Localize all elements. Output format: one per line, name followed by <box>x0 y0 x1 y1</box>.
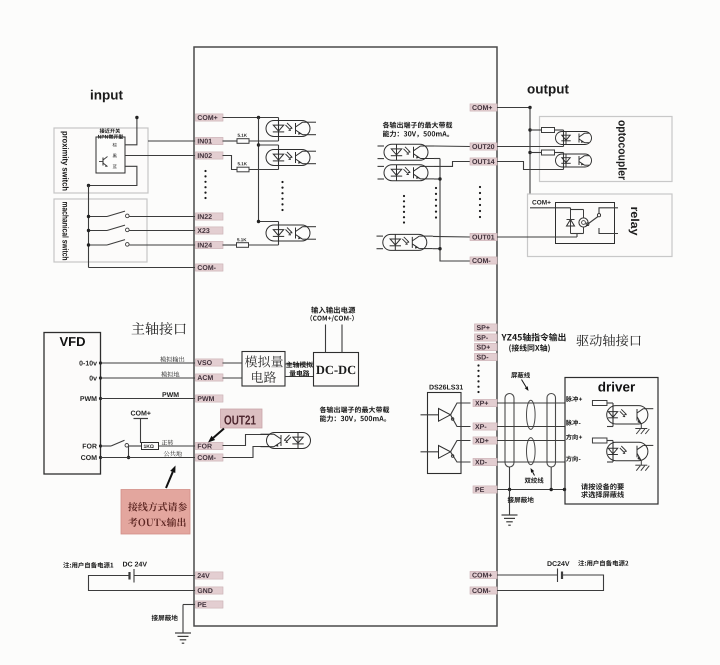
junction switch-COM <box>127 456 130 459</box>
junction bus U5 <box>438 177 441 180</box>
proximity sensor transistor symbol <box>99 161 103 163</box>
relay label <box>629 207 640 235</box>
proximity pin label 蓝 <box>113 164 117 168</box>
terminal IN24 (input) <box>196 241 224 248</box>
ellipsis YZ terminals <box>477 364 479 366</box>
resistor R3 5.1K <box>237 243 249 248</box>
wire PE earth drop <box>509 490 511 516</box>
relay contact blade <box>589 217 599 224</box>
wire COM+ output external <box>497 107 530 109</box>
terminal FOR (spindle) <box>196 442 224 449</box>
wire proximity pin1 to COM+ rail <box>125 118 137 145</box>
wire R1 to opto U1 <box>249 140 279 142</box>
terminal OUT20 (output) <box>470 143 497 150</box>
stub U5 LED left <box>378 165 385 167</box>
note user power 1 <box>63 562 113 568</box>
terminal COM- (IO power) <box>470 587 497 594</box>
driver label <box>598 382 635 392</box>
wire analog to DCDC lower <box>285 376 314 378</box>
relay COM+ label <box>532 200 550 205</box>
junction S2 <box>87 229 90 232</box>
earth ground (power) <box>175 632 191 634</box>
label 脉冲- <box>566 420 578 426</box>
wire VSO to analog box <box>223 362 243 364</box>
note max load text (spindle) <box>320 406 390 413</box>
twisted pair ellipse XP <box>527 400 536 429</box>
relay contact bottom <box>599 228 618 234</box>
VFD pin 0-10v <box>79 361 97 366</box>
buffer A1 out+ to XP+ <box>451 403 471 415</box>
resistor R2 5.1K <box>237 167 249 172</box>
optocoupler U9 (OUT21 demo, mirrored) <box>261 433 311 449</box>
wire switch common bus <box>88 186 90 268</box>
junction bus ch2 <box>257 143 260 146</box>
buffer A2 out- to XD- <box>451 452 471 462</box>
earth ground (drive) <box>502 514 518 516</box>
wire 0-10v to VSO <box>101 362 196 364</box>
proximity sensor inner box <box>96 137 125 173</box>
wire ACM to analog box <box>223 377 243 379</box>
junction bus corner ch3 <box>257 220 260 223</box>
wire battery loop left <box>89 576 196 591</box>
analog circuit text <box>245 356 283 368</box>
terminal VSO (spindle) <box>196 359 224 366</box>
terminal PE (power) <box>196 601 224 608</box>
spindle interface title 主轴接口 <box>132 322 186 335</box>
wire proximity pin3 to common <box>89 166 137 185</box>
label (COM+/COM-) <box>310 315 353 322</box>
relay coil <box>579 218 588 227</box>
battery B1 <box>133 569 135 583</box>
ellipsis output optos A <box>403 195 405 197</box>
DC-DC text <box>316 366 355 374</box>
wire R8 to opto <box>607 440 613 442</box>
wire battery2 loop <box>497 575 604 591</box>
resistor R8 <box>592 438 607 443</box>
wire DCDC feed left <box>325 325 327 353</box>
switch FOR blade <box>101 445 112 447</box>
callout OUT21 box <box>221 409 263 428</box>
wire COM- to demo opto <box>223 447 271 458</box>
wire proximity pin2 to IN02 <box>125 155 195 157</box>
switch S2 to X23 <box>89 230 108 232</box>
terminal XP- (drive) <box>473 423 497 430</box>
junction S1 <box>87 215 90 218</box>
label COM+ pullup <box>131 411 151 416</box>
optocoupler U11 (driver) <box>607 442 654 460</box>
wire switch to R6 <box>129 445 142 447</box>
wire 24V to battery <box>134 575 195 577</box>
wire branch2 <box>530 152 542 154</box>
label 接线同X轴 <box>509 344 550 352</box>
flyback diode D1 <box>570 210 572 234</box>
wire R2 to opto U2 <box>249 169 279 171</box>
optocoupler U5 (OUT14) <box>384 165 434 181</box>
chassis ground drv1 <box>640 424 642 429</box>
wire COM+ rail drop <box>140 419 142 444</box>
label DC 24V (left) <box>123 562 147 567</box>
LED feed ch1 <box>278 118 280 142</box>
wire OUT01 to relay <box>497 236 556 238</box>
DC-DC box <box>314 353 359 387</box>
terminal SP- (YZ cmd) <box>475 334 498 341</box>
optocoupler U1 <box>266 121 316 137</box>
relay K1 body <box>556 203 615 244</box>
analog circuit box 模拟量电路 <box>242 352 285 387</box>
wire output common bus <box>440 159 470 262</box>
cable shield capsule left <box>505 394 514 468</box>
LED feed ch2 <box>278 145 280 170</box>
input section title <box>91 90 123 103</box>
wire bus to ch2 LED <box>259 144 279 146</box>
junction COM+ bus <box>257 116 260 119</box>
terminal COM+ (IO power) <box>470 571 497 578</box>
arrow 双绞线 pointer <box>533 472 535 476</box>
wire R3 to opto U3 <box>249 244 279 246</box>
terminal SP+ (YZ cmd) <box>475 324 498 331</box>
wire U5 collector to OUT14 <box>434 162 470 167</box>
resistor R1 5.1K <box>237 139 249 144</box>
twisted pair ellipse XD <box>527 438 536 465</box>
wire PE stub <box>183 604 195 606</box>
buffer A2 out+ to XD+ <box>451 441 471 452</box>
wire PE ground drop <box>182 605 184 634</box>
wire OUT20 return <box>497 146 564 148</box>
mechanical switch label <box>62 202 68 260</box>
label 主轴模拟量电路 <box>286 361 313 367</box>
output section title <box>528 85 569 97</box>
COM+ rail bar <box>134 418 149 420</box>
resistor R6 1K <box>142 443 159 450</box>
VFD label <box>60 337 85 346</box>
terminal PWM (spindle) <box>196 395 224 402</box>
terminal COM- (spindle) <box>196 454 224 461</box>
wire U6 collector to OUT01 <box>433 235 470 238</box>
terminal COM- (input) <box>196 264 224 271</box>
wire shield drain left <box>509 467 511 490</box>
proximity pin label 黑 <box>113 154 117 158</box>
wire COM+ drop bus <box>529 108 531 208</box>
label 方向+ <box>566 434 578 440</box>
wire PWM to PWM <box>101 398 196 400</box>
cable shield capsule right <box>547 394 556 468</box>
buffer A2 input <box>421 451 439 453</box>
wire XP- external <box>497 426 565 428</box>
proximity switch label <box>61 132 69 191</box>
wire XD- external <box>497 461 565 463</box>
wire drv XP- up <box>607 426 613 428</box>
terminal X23 (input) <box>196 227 224 234</box>
ellipsis output optos B <box>435 187 437 189</box>
driver box <box>565 378 658 505</box>
terminal COM+ (output) <box>470 104 497 111</box>
relay coil bottom rail <box>571 233 584 235</box>
wire COM+ to relay <box>530 207 571 209</box>
label 双绞线 <box>525 477 544 483</box>
terminal COM+ (input) <box>196 114 224 121</box>
callout OUT21 text <box>224 415 255 424</box>
junction common node <box>87 184 90 187</box>
wire shield drain right <box>550 467 552 490</box>
wire U6 emitter to bus <box>433 248 440 250</box>
chassis ground drv2 <box>640 461 642 466</box>
wire drv XD- up <box>607 461 613 463</box>
junction COM+ ext <box>528 106 531 109</box>
battery B2 <box>557 569 559 583</box>
wire switch to COM <box>128 446 130 458</box>
wire U5 emitter to bus <box>434 178 440 180</box>
stub U6 LED left <box>377 235 384 237</box>
relay coil top rail <box>571 209 584 211</box>
label 屏蔽线 <box>511 372 530 378</box>
buffer A2 triangle <box>439 446 451 459</box>
LED drop drv1 <box>612 403 614 427</box>
terminal ACM (spindle) <box>196 374 224 381</box>
wire COM+ to battery2 <box>497 574 558 576</box>
VFD pin FOR <box>83 444 97 449</box>
buffer A1 input <box>421 414 439 416</box>
wire PE to driver shield <box>497 489 565 491</box>
terminal OUT14 (output) <box>470 158 497 165</box>
proximity pin label 棕 <box>113 143 117 147</box>
wire IN01 to resistor <box>223 140 238 142</box>
wire COM+ internal <box>223 117 279 119</box>
proximity sensor caption 接近开关/NPN常开型 <box>100 128 121 133</box>
callout wiring-note box <box>121 490 190 535</box>
terminal COM- (output) <box>470 257 497 264</box>
wire analog to DCDC upper <box>285 363 314 365</box>
ellipsis input optos <box>281 181 283 183</box>
terminal IN01 (input) <box>196 137 224 144</box>
label 接屏蔽地 (power) <box>152 615 178 621</box>
junction branch2 <box>528 151 531 154</box>
label DC24V (right) <box>548 561 570 566</box>
label DS26LS31 <box>430 385 464 390</box>
optocoupler load group box <box>540 117 673 182</box>
terminal IN02 (input) <box>196 152 224 159</box>
mechanical switch group box <box>54 199 147 262</box>
label 模拟输出 <box>160 356 184 362</box>
optocoupler U6 (OUT01) <box>383 234 433 250</box>
VFD pin 0v <box>90 376 98 381</box>
terminal IN22 (input) <box>196 213 224 220</box>
wire U4 collector to OUT20 <box>434 145 470 148</box>
wire R7 to opto <box>607 402 613 404</box>
wire IN02 jog <box>223 156 238 170</box>
wire FOR to demo opto <box>223 435 271 446</box>
optocoupler U8 (external) <box>556 154 592 167</box>
wire branch1 <box>530 129 542 131</box>
label 模拟地 <box>161 371 179 377</box>
terminal OUT01 (output) <box>470 233 497 240</box>
junction bus U6 <box>438 247 441 250</box>
proximity switch group box <box>54 128 148 193</box>
optocoupler U2 <box>266 150 316 166</box>
relay contact fixed <box>599 208 618 214</box>
terminal GND (power) <box>196 587 224 594</box>
wire OUT14 return <box>497 162 564 170</box>
terminal SD- (YZ cmd) <box>475 353 498 360</box>
terminal 24V (power) <box>196 572 224 579</box>
wire IN24 to resistor <box>223 244 237 246</box>
junction PE-driver <box>563 488 566 491</box>
terminal XD- (drive) <box>473 458 497 465</box>
resistor R4 <box>542 128 555 133</box>
wire input COM+ bus vertical <box>259 118 279 222</box>
terminal XD+ (drive) <box>473 437 497 444</box>
arrow OUT21 to FOR <box>213 429 224 438</box>
label 输入输出电源 <box>311 307 355 314</box>
wire R4 to LED <box>555 129 564 131</box>
wire 0v to ACM <box>101 377 196 379</box>
label 正转 <box>162 440 174 446</box>
label PWM wire <box>163 392 179 397</box>
ellipsis output terminals <box>479 186 481 188</box>
VFD box <box>44 333 101 475</box>
arrow 屏蔽线 pointer <box>522 380 527 388</box>
VFD pin PWM <box>80 396 96 401</box>
note max load text (output top) <box>383 122 453 129</box>
callout wiring-note text <box>128 502 187 511</box>
resistor R7 <box>592 401 607 406</box>
junction S3 <box>87 243 90 246</box>
terminal XP+ (drive) <box>473 399 497 406</box>
stub U4 LED left <box>378 145 385 147</box>
terminal PE (drive) <box>473 486 497 493</box>
arrow wiring-note to COM- <box>166 472 173 488</box>
note shield requirement <box>581 483 624 490</box>
label YZ45轴指令输出 <box>501 333 565 341</box>
label 方向- <box>566 456 578 462</box>
relay group box <box>528 194 673 257</box>
buffer A1 out- to XP- <box>451 415 471 427</box>
resistor R5 <box>542 150 555 155</box>
optocoupler U3 <box>266 225 316 241</box>
VFD pin COM <box>81 455 97 460</box>
junction proximity-COM+ <box>135 116 138 119</box>
junction branch1 <box>528 128 531 131</box>
line driver chip DS26LS31 <box>428 393 462 474</box>
switch S1 to IN22 <box>89 216 108 218</box>
wire IN01 external <box>148 140 195 142</box>
wire common to COM- <box>89 267 196 269</box>
wire XP+ external <box>497 402 565 404</box>
label 公共地 <box>164 451 182 457</box>
wire COM to COM- terminal <box>101 457 196 459</box>
LED drop branch2 <box>563 153 565 170</box>
wire U4 emitter to bus <box>434 158 440 160</box>
LED feed ch3 <box>278 222 280 246</box>
LED drop drv2 <box>612 441 614 463</box>
optocoupler U4 (OUT20) <box>384 144 434 160</box>
optocoupler U10 (driver) <box>607 406 654 424</box>
main controller block outline <box>194 47 497 626</box>
label 接屏蔽地 (drive) <box>508 497 534 503</box>
buffer A1 triangle <box>439 409 451 422</box>
switch S3 to IN24 <box>89 244 108 246</box>
junction drain left <box>508 488 511 491</box>
wire XD+ external <box>497 440 565 442</box>
junction drain right <box>550 488 553 491</box>
label 脉冲+ <box>566 396 578 402</box>
note user power 2 <box>578 560 628 566</box>
LED drop branch1 <box>563 130 565 147</box>
drive axis title 驱动轴接口 <box>577 334 641 346</box>
wire DCDC feed right <box>341 325 343 353</box>
wire R6 to FOR terminal <box>159 445 196 447</box>
optocoupler U7 (external) <box>556 132 592 145</box>
wire R5 to LED <box>555 152 564 154</box>
optocoupler load label <box>616 120 627 180</box>
terminal SD+ (YZ cmd) <box>475 343 498 350</box>
ellipsis input terminals <box>204 170 206 172</box>
